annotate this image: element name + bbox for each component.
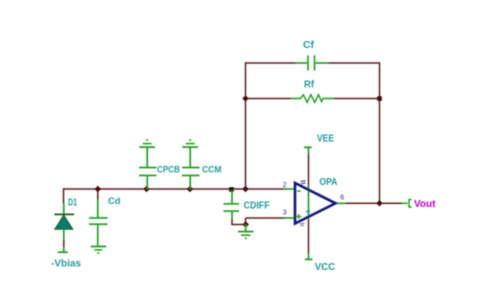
op-amp bottom pin mark <box>300 223 305 225</box>
wire: feedback right vertical <box>379 62 381 203</box>
node: Rf left junction <box>242 95 249 102</box>
svg-text:-Vbias: -Vbias <box>51 259 81 270</box>
wire: VEE down wire <box>308 154 310 189</box>
node: CPCB junction <box>143 186 150 193</box>
op-amp U1 triangle <box>295 183 336 224</box>
node: output junction <box>376 200 383 207</box>
wire: Rf row red stubs <box>246 98 292 100</box>
wire: Cd branch stub <box>97 189 99 200</box>
resistor Rf <box>291 95 334 103</box>
svg-text:CCM: CCM <box>202 165 222 176</box>
svg-text:VEE: VEE <box>317 134 334 145</box>
diode D1 <box>55 204 75 253</box>
wire: Vout green stub <box>402 202 408 204</box>
wire: feedback top rail (Cf row) <box>64 62 403 253</box>
wire: feedback left vertical <box>245 62 247 189</box>
wire: VCC up wire <box>308 219 310 254</box>
wire: D1 lower wire <box>63 239 65 248</box>
op-amp plus supply mark <box>306 209 311 214</box>
-Vbias terminal T-bar <box>58 251 68 253</box>
wire: D1 branch vertical <box>63 188 65 203</box>
node: CDIFF ground junction <box>242 221 249 228</box>
op-amp U1 internal power line <box>308 185 310 220</box>
capacitor Cf <box>296 55 328 70</box>
node: Cd junction <box>95 186 102 193</box>
capacitor CCM <box>182 147 200 189</box>
node: feedback-bus junction <box>242 186 249 193</box>
svg-text:VCC: VCC <box>315 262 336 273</box>
capacitor Cd <box>89 200 108 246</box>
ground (above CCM, inverted) <box>182 140 198 147</box>
wire: pin3 elbow down <box>245 218 247 225</box>
wire: pin3 horizontal <box>246 217 286 219</box>
svg-text:6: 6 <box>340 195 344 202</box>
op-amp minus supply mark (top) <box>301 181 306 184</box>
svg-text:OPA: OPA <box>319 177 337 188</box>
svg-text:Vout: Vout <box>414 198 436 210</box>
svg-text:Cd: Cd <box>108 196 121 207</box>
svg-text:Rf: Rf <box>304 80 315 91</box>
VEE terminal T-bar <box>304 147 312 154</box>
svg-text:Cf: Cf <box>303 40 315 51</box>
ground (below Cd) <box>91 247 106 254</box>
op-amp plus input mark <box>296 214 301 219</box>
wire: main input bus <box>64 188 286 190</box>
svg-text:D1: D1 <box>68 198 77 209</box>
wire: CDIFF bottom elbow <box>232 219 246 225</box>
VCC terminal T-bar <box>305 253 313 259</box>
op-amp U1 pin stubs <box>284 189 346 218</box>
capacitor CDIFF <box>224 190 240 219</box>
svg-text:CPCB: CPCB <box>157 165 180 176</box>
node: CDIFF input node (square) <box>229 187 234 192</box>
node: CCM junction <box>187 186 194 193</box>
ground (above CPCB, inverted) <box>139 140 155 147</box>
wire: output wire <box>345 202 402 204</box>
op-amp minus input mark <box>297 190 301 192</box>
svg-text:3: 3 <box>283 210 287 217</box>
Vout terminal bracket <box>409 200 412 207</box>
svg-text:CDIFF: CDIFF <box>244 200 270 211</box>
ground (below CDIFF) <box>238 225 254 239</box>
capacitor CPCB <box>139 147 157 189</box>
svg-text:2: 2 <box>283 182 287 189</box>
node: Rf right junction (square) <box>377 96 382 101</box>
